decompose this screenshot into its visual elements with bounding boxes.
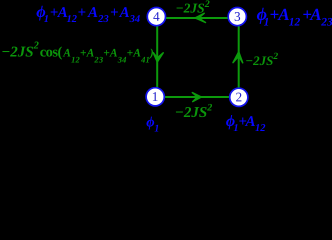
node 2 circle <box>230 88 248 106</box>
node 3 circle <box>228 8 246 26</box>
wire top edge (3 to 4) <box>157 17 236 19</box>
arrowhead left edge pointing down <box>153 53 163 62</box>
svg-text:−2JS2: −2JS2 <box>176 0 210 15</box>
node 4 circle <box>147 8 165 26</box>
arrowhead bottom edge pointing right <box>192 93 201 102</box>
wire bottom edge (1 to 2) <box>156 96 238 98</box>
svg-text:−2JS2: −2JS2 <box>175 103 212 121</box>
wire right edge (2 to 3) <box>238 17 240 97</box>
node 1 circle <box>146 88 164 106</box>
node 1 digit <box>153 92 158 101</box>
node 2 digit <box>236 93 241 102</box>
arrowhead top edge pointing left <box>195 13 205 22</box>
arrowhead right edge pointing up <box>233 52 243 63</box>
node 3 digit <box>235 12 240 21</box>
wire left edge (4 to 1) <box>156 17 158 96</box>
node 4 digit <box>153 12 159 21</box>
